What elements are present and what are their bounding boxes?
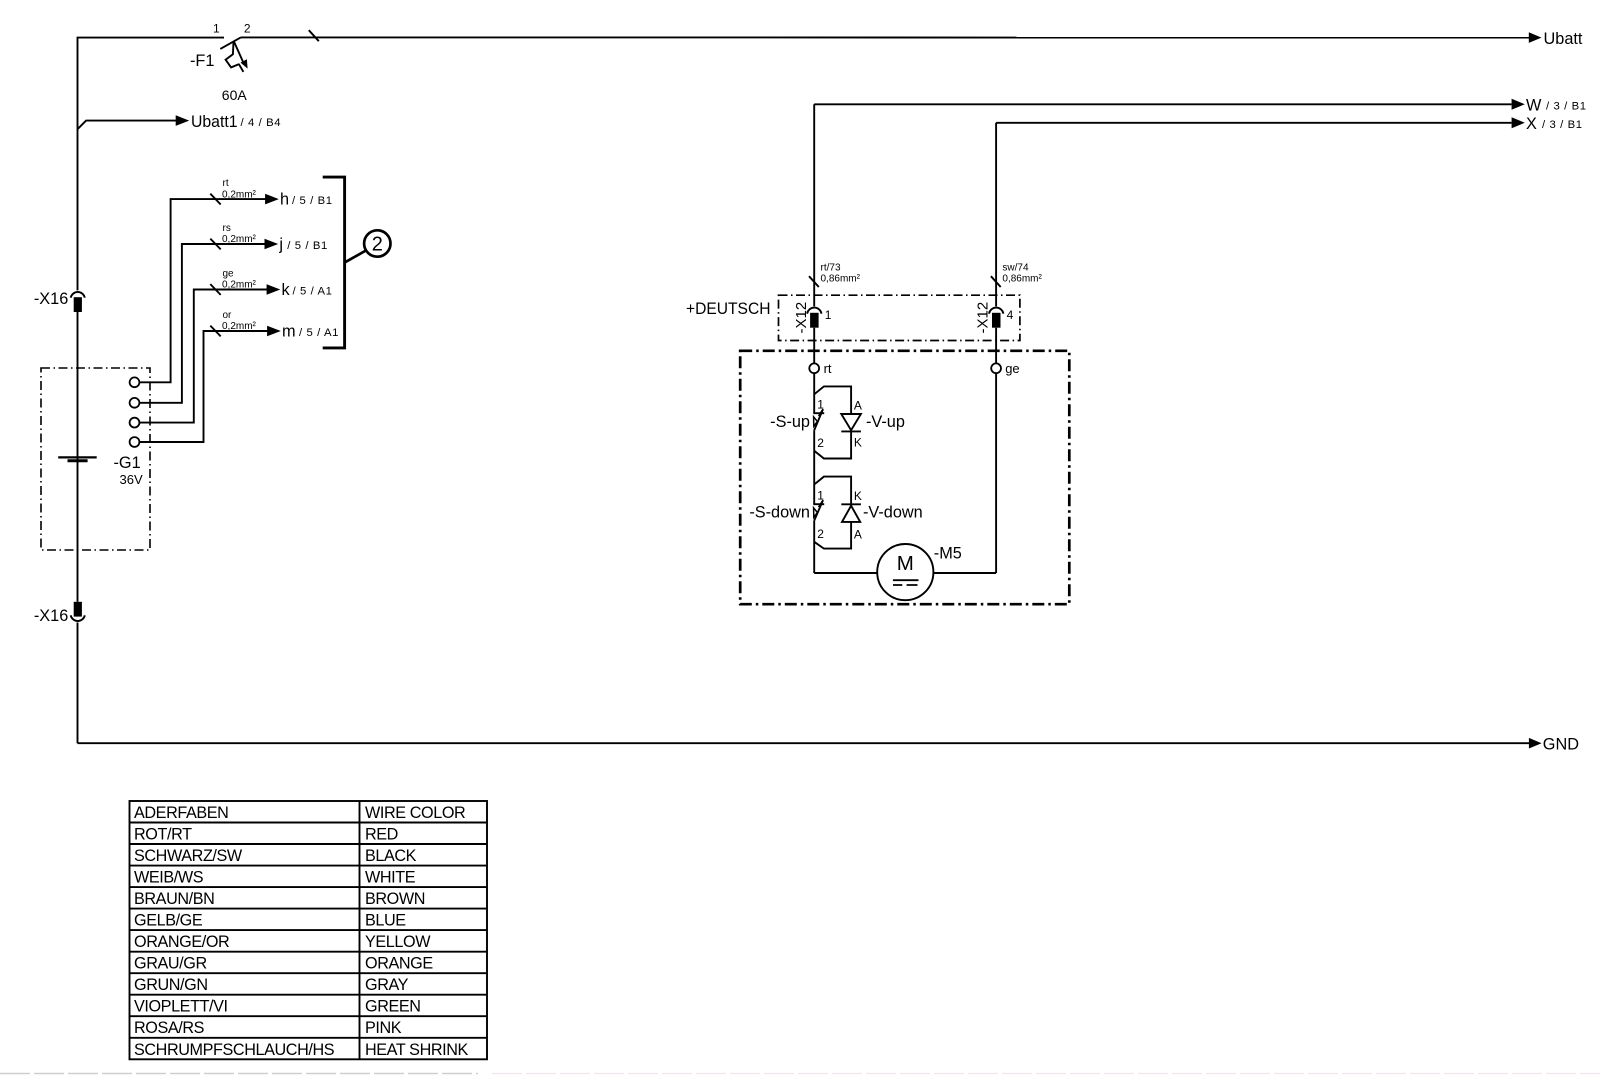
svg-text:k: k xyxy=(282,281,291,299)
svg-text:4: 4 xyxy=(1007,308,1014,322)
svg-text:GRAU/GR: GRAU/GR xyxy=(134,955,207,973)
svg-text:SCHRUMPFSCHLAUCH/HS: SCHRUMPFSCHLAUCH/HS xyxy=(134,1041,335,1059)
motor M5 dc symbol dashed line xyxy=(893,584,918,586)
svg-text:HEAT SHRINK: HEAT SHRINK xyxy=(365,1041,469,1059)
svg-text:ADERFABEN: ADERFABEN xyxy=(134,804,228,822)
svg-text:VIOPLETT/VI: VIOPLETT/VI xyxy=(134,998,228,1016)
connector X16 top pin xyxy=(74,297,82,312)
diode V-down cathode bar xyxy=(841,503,861,505)
svg-text:BRAUN/BN: BRAUN/BN xyxy=(134,890,214,908)
wire k slash mark xyxy=(210,284,220,295)
fuse/breaker F1 symbol xyxy=(220,37,243,72)
switch S-up actuator triangle xyxy=(814,417,818,426)
switch S-down contact slash xyxy=(819,500,824,507)
diode V-up cathode bar xyxy=(841,430,861,432)
svg-text:h: h xyxy=(280,191,289,209)
wire parallel branch around S-up to diode V-up xyxy=(814,386,851,414)
svg-text:ge: ge xyxy=(223,269,235,280)
callout circle 2 xyxy=(364,230,390,256)
svg-text:0,86mm²: 0,86mm² xyxy=(821,274,861,285)
svg-text:GRUN/GN: GRUN/GN xyxy=(134,976,208,994)
wire motor to ge leg xyxy=(933,572,996,574)
svg-text:-X12: -X12 xyxy=(975,302,992,334)
diode V-up triangle xyxy=(841,414,861,430)
node k arrow xyxy=(267,284,281,295)
svg-text:0,2mm²: 0,2mm² xyxy=(222,189,257,200)
connector X12 pin 1 socket arc xyxy=(807,308,821,314)
diode V-down triangle xyxy=(842,506,860,522)
svg-text:36V: 36V xyxy=(120,472,143,487)
svg-text:PINK: PINK xyxy=(365,1019,402,1037)
svg-text:/ 5 / B1: / 5 / B1 xyxy=(287,240,328,252)
wire m slash mark xyxy=(210,326,220,337)
battery G1 short plate xyxy=(68,459,88,462)
svg-text:-X16: -X16 xyxy=(34,607,68,625)
svg-text:-S-up: -S-up xyxy=(770,413,810,431)
svg-text:BROWN: BROWN xyxy=(365,890,425,908)
svg-text:0,2mm²: 0,2mm² xyxy=(222,234,257,245)
wire Ubatt1 branch with 45-degree jog xyxy=(78,121,177,130)
battery G1 enclosure dash-dot box xyxy=(41,368,150,550)
svg-text:ROSA/RS: ROSA/RS xyxy=(134,1019,205,1037)
connector X16 bottom pin xyxy=(74,602,82,617)
switch S-up blade xyxy=(814,411,822,430)
svg-text:/ 5 / A1: / 5 / A1 xyxy=(299,327,339,339)
node h arrow xyxy=(265,194,279,205)
callout leader line xyxy=(345,250,367,262)
svg-text:GREEN: GREEN xyxy=(365,998,421,1016)
svg-text:/ 5 / B1: / 5 / B1 xyxy=(292,195,333,207)
svg-text:1: 1 xyxy=(825,308,832,322)
svg-text:GRAY: GRAY xyxy=(365,976,409,994)
node X arrow xyxy=(1512,117,1525,128)
wire Ubatt top horizontal (left of fuse) xyxy=(77,37,224,39)
connector X16 top socket arc xyxy=(71,292,85,298)
svg-text:or: or xyxy=(223,310,233,321)
svg-text:M: M xyxy=(897,552,914,575)
svg-text:-V-down: -V-down xyxy=(863,504,923,522)
svg-text:YELLOW: YELLOW xyxy=(365,933,431,951)
motor M5 dc symbol solid line xyxy=(893,579,919,581)
wire Ubatt top horizontal (right of fuse) xyxy=(241,36,1529,38)
svg-text:/ 4 / B4: / 4 / B4 xyxy=(241,117,282,129)
svg-text:A: A xyxy=(854,528,862,542)
svg-text:rt: rt xyxy=(824,361,832,376)
wire h from battery G1 terminal xyxy=(139,199,265,382)
node m arrow xyxy=(267,326,281,337)
switch S-up fixed contact dash xyxy=(813,412,824,414)
wire sw/74 slash mark xyxy=(991,276,1001,287)
battery G1 terminal circle 2 xyxy=(130,398,140,408)
wire left power rail vertical xyxy=(77,38,79,744)
wire h slash mark xyxy=(210,194,220,205)
battery G1 long plate xyxy=(58,456,96,458)
svg-text:WHITE: WHITE xyxy=(365,869,416,887)
svg-text:Ubatt1: Ubatt1 xyxy=(191,113,238,131)
svg-text:0,86mm²: 0,86mm² xyxy=(1002,274,1042,285)
svg-text:/ 5 / A1: / 5 / A1 xyxy=(293,285,333,297)
wire rt/73 slash mark xyxy=(809,276,819,287)
svg-text:K: K xyxy=(854,489,862,503)
svg-text:60A: 60A xyxy=(222,87,248,103)
svg-text:ORANGE: ORANGE xyxy=(365,955,433,973)
connector X12 pin 1 plug xyxy=(810,313,819,328)
svg-text:2: 2 xyxy=(817,527,824,541)
wire W vertical (x=814) xyxy=(813,104,815,573)
svg-text:WEIB/WS: WEIB/WS xyxy=(134,869,204,887)
node j arrow xyxy=(265,239,279,250)
svg-text:A: A xyxy=(854,398,862,412)
svg-text:BLUE: BLUE xyxy=(365,912,406,930)
svg-text:-X16: -X16 xyxy=(34,290,68,308)
wire j from battery G1 terminal xyxy=(139,244,265,403)
switch S-down actuator triangle xyxy=(814,508,818,517)
svg-text:/ 3 / B1: / 3 / B1 xyxy=(1542,119,1583,131)
svg-text:j: j xyxy=(278,236,283,254)
svg-text:-X12: -X12 xyxy=(793,302,810,334)
battery G1 terminal circle 1 xyxy=(130,377,140,387)
svg-text:WIRE COLOR: WIRE COLOR xyxy=(365,804,465,822)
connector X16 bottom socket arc xyxy=(71,615,85,621)
svg-text:GELB/GE: GELB/GE xyxy=(134,912,203,930)
svg-text:BLACK: BLACK xyxy=(365,847,417,865)
wire slash mark on Ubatt line xyxy=(309,30,319,41)
svg-text:2: 2 xyxy=(372,234,383,256)
switch S-down blade xyxy=(814,502,822,521)
switch S-up contact slash xyxy=(819,409,824,416)
motor M5 circle xyxy=(877,544,933,600)
svg-text:-V-up: -V-up xyxy=(866,413,905,431)
svg-text:Ubatt: Ubatt xyxy=(1544,30,1583,48)
svg-text:SCHWARZ/SW: SCHWARZ/SW xyxy=(134,847,243,865)
node W arrow xyxy=(1512,99,1525,110)
wire X horizontal to right edge xyxy=(996,122,1511,124)
svg-text:/ 3 / B1: / 3 / B1 xyxy=(1546,101,1587,113)
svg-text:-G1: -G1 xyxy=(114,454,141,472)
battery G1 terminal circle 3 xyxy=(130,418,140,428)
svg-text:GND: GND xyxy=(1543,735,1579,753)
svg-text:rt/73: rt/73 xyxy=(821,262,841,273)
svg-text:+DEUTSCH: +DEUTSCH xyxy=(686,300,771,318)
node GND arrow xyxy=(1529,738,1542,749)
switch S-down fixed contact dash xyxy=(813,503,824,505)
svg-text:1: 1 xyxy=(213,21,220,35)
wire switch leg to motor xyxy=(814,572,877,574)
wire X vertical (x=996) xyxy=(995,123,997,573)
wire m from battery G1 terminal xyxy=(139,331,267,442)
wire color legend table xyxy=(130,801,488,1059)
svg-text:2: 2 xyxy=(244,21,251,35)
svg-text:ge: ge xyxy=(1005,361,1019,376)
faint sheet border bottom xyxy=(0,1073,478,1075)
wire parallel branch around S-down to diode V-down xyxy=(814,477,851,505)
svg-text:RED: RED xyxy=(365,826,398,844)
svg-text:0,2mm²: 0,2mm² xyxy=(222,280,257,291)
wire k from battery G1 terminal xyxy=(139,290,267,423)
motor enclosure dash-dot box xyxy=(740,351,1069,604)
battery G1 terminal circle 4 xyxy=(130,437,140,447)
svg-text:0,2mm²: 0,2mm² xyxy=(222,321,257,332)
svg-text:2: 2 xyxy=(817,436,824,450)
node ge terminal circle xyxy=(991,363,1001,373)
bracket grouping h/j/k/m xyxy=(323,177,345,348)
svg-text:ORANGE/OR: ORANGE/OR xyxy=(134,933,229,951)
svg-text:-S-down: -S-down xyxy=(749,504,810,522)
node Ubatt arrow xyxy=(1529,32,1542,43)
node rt terminal circle xyxy=(809,363,819,373)
svg-text:X: X xyxy=(1526,115,1537,133)
svg-text:rs: rs xyxy=(223,223,231,234)
svg-text:rt: rt xyxy=(223,178,229,189)
connector X12 dash-dot box xyxy=(779,295,1020,340)
svg-text:K: K xyxy=(854,435,862,449)
connector X12 pin 4 socket arc xyxy=(989,308,1003,314)
svg-text:m: m xyxy=(282,323,296,341)
connector X12 pin 4 plug xyxy=(992,313,1001,328)
node Ubatt1 arrow xyxy=(176,115,190,126)
wire GND bottom horizontal xyxy=(78,742,1530,744)
svg-text:sw/74: sw/74 xyxy=(1002,262,1029,273)
wire j slash mark xyxy=(210,239,220,250)
svg-text:ROT/RT: ROT/RT xyxy=(134,826,192,844)
svg-text:W: W xyxy=(1526,96,1542,114)
svg-text:-M5: -M5 xyxy=(934,545,962,563)
wire W horizontal to right edge xyxy=(814,103,1511,105)
svg-text:-F1: -F1 xyxy=(190,52,214,70)
